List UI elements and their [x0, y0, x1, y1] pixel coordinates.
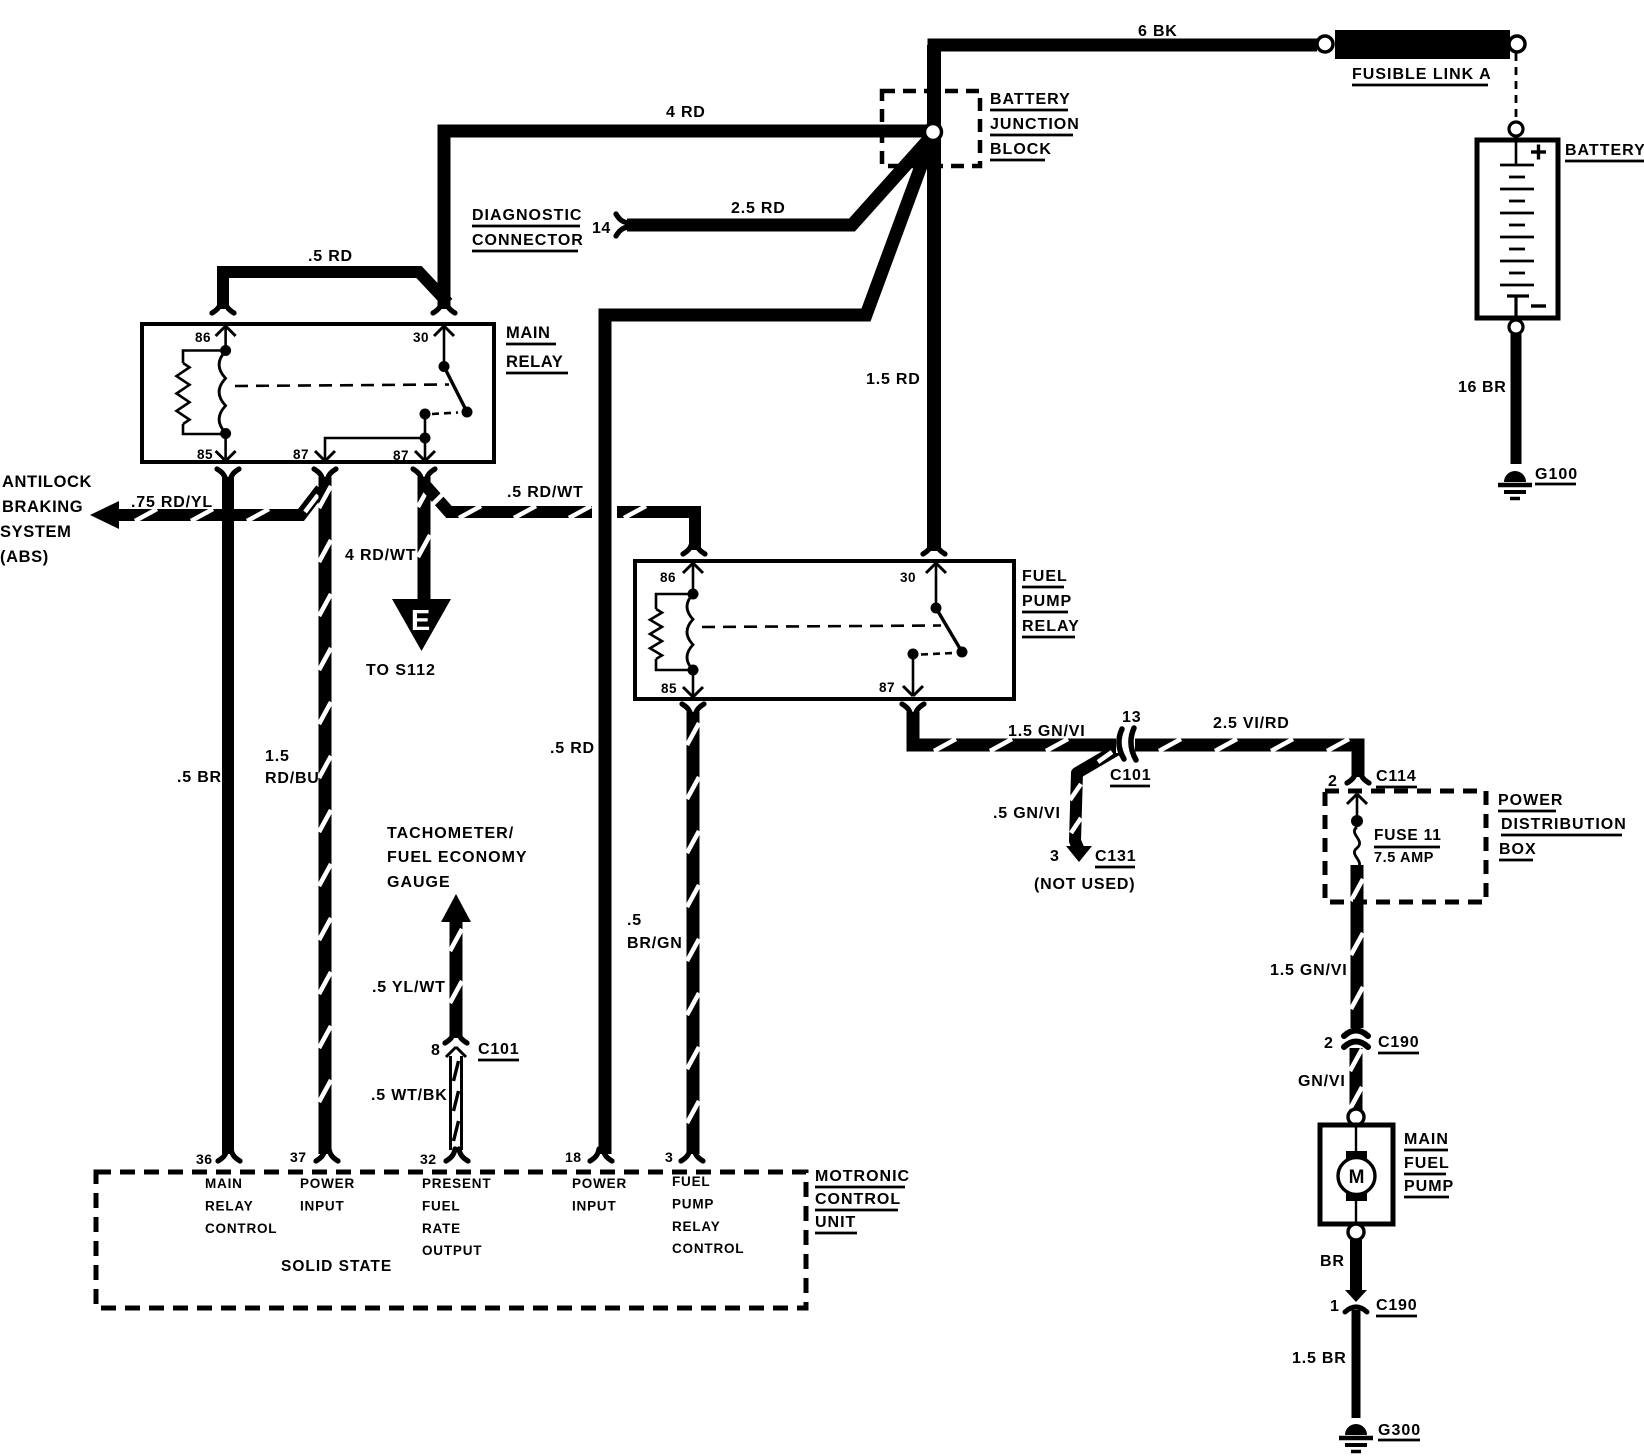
- svg-text:.5 RD/WT: .5 RD/WT: [507, 484, 584, 501]
- fuel pump relay pin 85: [692, 670, 695, 696]
- svg-text:POWER: POWER: [572, 1176, 627, 1191]
- svg-text:.5: .5: [627, 912, 642, 929]
- svg-text:30: 30: [900, 570, 916, 585]
- main relay pin 30 and switch: [434, 326, 444, 336]
- connector C101 pin 8: [445, 1031, 454, 1043]
- svg-text:MAIN: MAIN: [506, 324, 551, 342]
- svg-text:SYSTEM: SYSTEM: [0, 523, 71, 541]
- svg-text:C101: C101: [1110, 767, 1151, 784]
- node circle below main fuel pump: [1348, 1224, 1364, 1240]
- svg-text:14: 14: [592, 220, 611, 237]
- power distribution box dashed: [1325, 791, 1486, 902]
- svg-text:BATTERY: BATTERY: [990, 91, 1071, 108]
- svg-text:FUSIBLE LINK A: FUSIBLE LINK A: [1352, 66, 1492, 83]
- svg-text:MAIN: MAIN: [205, 1176, 243, 1191]
- svg-text:1.5 GN/VI: 1.5 GN/VI: [1008, 723, 1085, 740]
- svg-text:7.5 AMP: 7.5 AMP: [1374, 850, 1434, 866]
- svg-text:BATTERY: BATTERY: [1565, 142, 1644, 159]
- fuel pump relay coil: [688, 589, 699, 600]
- svg-text:FUEL: FUEL: [1022, 568, 1068, 585]
- svg-text:BLOCK: BLOCK: [990, 141, 1052, 158]
- wire .75 RD/YL to antilock braking system: [90, 489, 321, 529]
- connector C190 pin 2: [1344, 1031, 1368, 1037]
- node circle above main fuel pump: [1348, 1109, 1364, 1125]
- connector C114 pin 2: [1347, 771, 1356, 783]
- svg-text:SOLID STATE: SOLID STATE: [281, 1258, 392, 1275]
- svg-text:G100: G100: [1535, 466, 1578, 483]
- wire 6 BK from battery junction block to fusible link: [934, 45, 1317, 138]
- wire .5 RD/WT main relay pin 87 to fuel pump relay pin 86: [426, 486, 695, 550]
- wire .5 YL/WT to tachometer fuel economy gauge: [441, 894, 471, 1038]
- connector at fuel pump relay pin 86: [683, 542, 692, 554]
- connector at main relay pin 30: [433, 301, 442, 313]
- svg-text:18: 18: [565, 1149, 582, 1165]
- ground G300: [1345, 1424, 1367, 1435]
- main relay resistor: [183, 351, 226, 364]
- connector below fuel pump relay pin 87: [902, 704, 911, 716]
- svg-text:37: 37: [290, 1149, 307, 1165]
- svg-text:BR/GN: BR/GN: [627, 935, 683, 952]
- wire .5 RD from main relay pin 86 to pin 30 feed: [223, 272, 448, 309]
- svg-text:BOX: BOX: [1499, 841, 1537, 858]
- svg-text:(ABS): (ABS): [0, 548, 49, 566]
- connector C190 pin 1: [1345, 1290, 1367, 1302]
- svg-text:RATE: RATE: [422, 1221, 461, 1236]
- svg-text:GN/VI: GN/VI: [1298, 1073, 1346, 1090]
- wire 1.5 RD vertical from junction block to fuel pump relay pin 30: [927, 45, 941, 551]
- connector 14 at diagnostic connector: [616, 214, 628, 223]
- svg-text:RELAY: RELAY: [506, 353, 563, 371]
- wire 4 RD from main relay pin 30 to battery junction block: [444, 131, 934, 309]
- svg-text:87: 87: [393, 448, 409, 463]
- svg-text:36: 36: [196, 1151, 213, 1167]
- ground G100: [1504, 471, 1526, 482]
- svg-text:FUEL: FUEL: [422, 1198, 460, 1213]
- fuel pump relay pin 30 and switch: [926, 563, 936, 573]
- wire 1.5 RD/BU main relay pin 87 to Motronic pin 37: [319, 477, 331, 1154]
- svg-text:(NOT USED): (NOT USED): [1034, 876, 1135, 893]
- svg-text:.5 YL/WT: .5 YL/WT: [372, 979, 446, 996]
- svg-text:RELAY: RELAY: [205, 1198, 254, 1213]
- wire 1.5 GN/VI and 2.5 VI/RD from fuel pump relay pin 87 to C114: [913, 712, 1358, 777]
- svg-text:MOTRONIC: MOTRONIC: [815, 1168, 910, 1185]
- svg-text:16 BR: 16 BR: [1458, 379, 1506, 396]
- relay main relay box: [142, 324, 494, 462]
- battery plus terminal: [1531, 150, 1546, 153]
- svg-text:3: 3: [1050, 848, 1059, 865]
- wire 16 BR battery negative to G100: [1511, 334, 1522, 464]
- svg-text:2: 2: [1324, 1035, 1333, 1052]
- svg-text:MAIN: MAIN: [1404, 1131, 1449, 1148]
- svg-text:FUEL: FUEL: [672, 1174, 710, 1189]
- connector C101 13 inline: [1116, 737, 1135, 753]
- svg-text:TO S112: TO S112: [366, 662, 436, 679]
- svg-text:INPUT: INPUT: [300, 1198, 345, 1213]
- svg-text:FUSE 11: FUSE 11: [1374, 827, 1442, 844]
- svg-text:CONTROL: CONTROL: [672, 1241, 744, 1256]
- svg-text:85: 85: [197, 447, 213, 462]
- svg-text:.5 RD: .5 RD: [308, 248, 353, 265]
- connector below main relay pin 87b: [413, 469, 422, 481]
- connector at main relay pin 86: [212, 301, 221, 313]
- fuel pump relay resistor: [656, 594, 693, 609]
- svg-text:C114: C114: [1376, 768, 1417, 785]
- main relay pin 86: [216, 326, 226, 336]
- svg-text:8: 8: [431, 1042, 440, 1059]
- wire 4 RD/WT main relay pin 87 to splice E: [418, 477, 430, 600]
- svg-text:C101: C101: [478, 1041, 519, 1058]
- svg-text:1.5 BR: 1.5 BR: [1292, 1350, 1347, 1367]
- svg-text:.5 GN/VI: .5 GN/VI: [993, 805, 1061, 822]
- svg-text:JUNCTION: JUNCTION: [990, 116, 1080, 133]
- svg-text:CONTROL: CONTROL: [815, 1191, 901, 1208]
- main relay pin 87 contacts: [420, 409, 431, 420]
- fuel pump relay actuation dashed link: [702, 626, 941, 628]
- svg-text:CONNECTOR: CONNECTOR: [472, 232, 584, 249]
- svg-text:32: 32: [420, 1151, 437, 1167]
- wire .5 BR main relay pin 85 to Motronic pin 36: [222, 477, 234, 1154]
- svg-text:TACHOMETER/: TACHOMETER/: [387, 825, 514, 842]
- svg-text:CONTROL: CONTROL: [205, 1221, 277, 1236]
- battery junction block dashed box: [882, 91, 980, 166]
- fusible link A element: [1317, 36, 1333, 52]
- wire BR from main fuel pump to C190 pin 1: [1350, 1240, 1362, 1290]
- svg-text:BR: BR: [1320, 1253, 1345, 1270]
- main fuel pump box and motor: [1320, 1125, 1393, 1224]
- svg-text:FUEL: FUEL: [1404, 1155, 1450, 1172]
- svg-text:GAUGE: GAUGE: [387, 874, 451, 891]
- svg-text:G300: G300: [1378, 1422, 1421, 1439]
- wire 2.5 RD from diagnostic connector to junction block: [627, 138, 930, 225]
- svg-text:DISTRIBUTION: DISTRIBUTION: [1501, 816, 1627, 833]
- splice E to S112: [392, 599, 451, 651]
- svg-text:.5 RD: .5 RD: [550, 740, 595, 757]
- connector below fuel pump relay pin 85: [682, 704, 691, 716]
- connector at fuel pump relay pin 30: [923, 542, 932, 554]
- svg-text:3: 3: [665, 1149, 673, 1165]
- connector below main relay pin 87a: [314, 469, 323, 481]
- svg-text:RD/BU: RD/BU: [265, 770, 320, 787]
- svg-text:13: 13: [1122, 709, 1141, 726]
- wire .5 BR/GN fuel pump relay pin 85 to Motronic pin 3: [687, 712, 699, 1154]
- svg-text:C190: C190: [1376, 1297, 1417, 1314]
- svg-text:PUMP: PUMP: [1022, 593, 1072, 610]
- svg-text:RELAY: RELAY: [1022, 618, 1080, 635]
- svg-text:ANTILOCK: ANTILOCK: [2, 473, 92, 491]
- svg-text:POWER: POWER: [1498, 792, 1563, 809]
- svg-text:PRESENT: PRESENT: [422, 1176, 491, 1191]
- fuel pump relay pin 86: [683, 563, 693, 573]
- wire dashed link from fusible link to battery: [1515, 53, 1518, 121]
- svg-text:.5 BR: .5 BR: [177, 769, 222, 786]
- svg-text:86: 86: [195, 330, 211, 345]
- relay fuel pump relay box: [635, 561, 1014, 699]
- svg-text:2.5 VI/RD: 2.5 VI/RD: [1213, 715, 1290, 732]
- svg-text:87: 87: [879, 680, 895, 695]
- svg-text:85: 85: [661, 681, 677, 696]
- svg-text:.5 WT/BK: .5 WT/BK: [371, 1087, 448, 1104]
- svg-text:2.5 RD: 2.5 RD: [731, 200, 786, 217]
- svg-text:FUEL ECONOMY: FUEL ECONOMY: [387, 849, 528, 866]
- connector below main relay pin 85: [217, 469, 226, 481]
- main relay pin 85: [224, 434, 227, 460]
- svg-text:DIAGNOSTIC: DIAGNOSTIC: [472, 207, 582, 224]
- svg-text:1.5 GN/VI: 1.5 GN/VI: [1270, 962, 1347, 979]
- svg-text:INPUT: INPUT: [572, 1198, 617, 1213]
- battery component: [1477, 140, 1558, 318]
- svg-text:86: 86: [660, 570, 676, 585]
- svg-text:UNIT: UNIT: [815, 1214, 856, 1231]
- svg-text:POWER: POWER: [300, 1176, 355, 1191]
- svg-text:30: 30: [413, 330, 429, 345]
- node battery junction block splice: [925, 124, 942, 141]
- svg-text:PUMP: PUMP: [1404, 1178, 1454, 1195]
- wire .5 WT/BK white wire from C101 to Motronic pin 32: [449, 1056, 463, 1150]
- connectors at Motronic pins 36 37 32 18 3: [218, 1149, 227, 1161]
- svg-text:E: E: [411, 605, 430, 637]
- svg-text:C190: C190: [1378, 1034, 1419, 1051]
- svg-text:BRAKING: BRAKING: [2, 498, 83, 516]
- svg-text:RELAY: RELAY: [672, 1219, 721, 1234]
- svg-text:M: M: [1349, 1167, 1365, 1188]
- main relay coil: [220, 345, 231, 356]
- wire .5 GN/VI branch to C131 (not used): [1066, 749, 1118, 862]
- svg-text:C131: C131: [1095, 848, 1136, 865]
- fuse 11 7.5 amp: [1351, 815, 1363, 827]
- svg-text:1.5: 1.5: [265, 748, 290, 765]
- Motronic control unit dashed box: [96, 1172, 806, 1308]
- svg-text:2: 2: [1328, 773, 1337, 790]
- battery minus terminal: [1531, 304, 1546, 307]
- svg-text:PUMP: PUMP: [672, 1196, 714, 1211]
- svg-text:87: 87: [293, 447, 309, 462]
- wire .5 RD from junction block down to Motronic pin 18: [605, 139, 931, 1154]
- main relay actuation dashed link: [235, 385, 449, 387]
- wire 1.5 GN/VI from fuse 11 to C190 pin 2: [1351, 865, 1363, 1028]
- svg-text:.75 RD/YL: .75 RD/YL: [131, 494, 213, 511]
- svg-text:1.5 RD: 1.5 RD: [866, 371, 921, 388]
- fuel pump relay pin 87 contact: [908, 649, 919, 660]
- svg-text:4 RD/WT: 4 RD/WT: [345, 547, 416, 564]
- svg-text:OUTPUT: OUTPUT: [422, 1243, 482, 1258]
- wire 1.5 BR from C190 to G300: [1352, 1310, 1361, 1418]
- svg-text:1: 1: [1330, 1298, 1339, 1315]
- wire GN/VI from C190 to main fuel pump: [1350, 1048, 1362, 1111]
- svg-text:6 BK: 6 BK: [1138, 23, 1178, 40]
- svg-text:4 RD: 4 RD: [666, 104, 706, 121]
